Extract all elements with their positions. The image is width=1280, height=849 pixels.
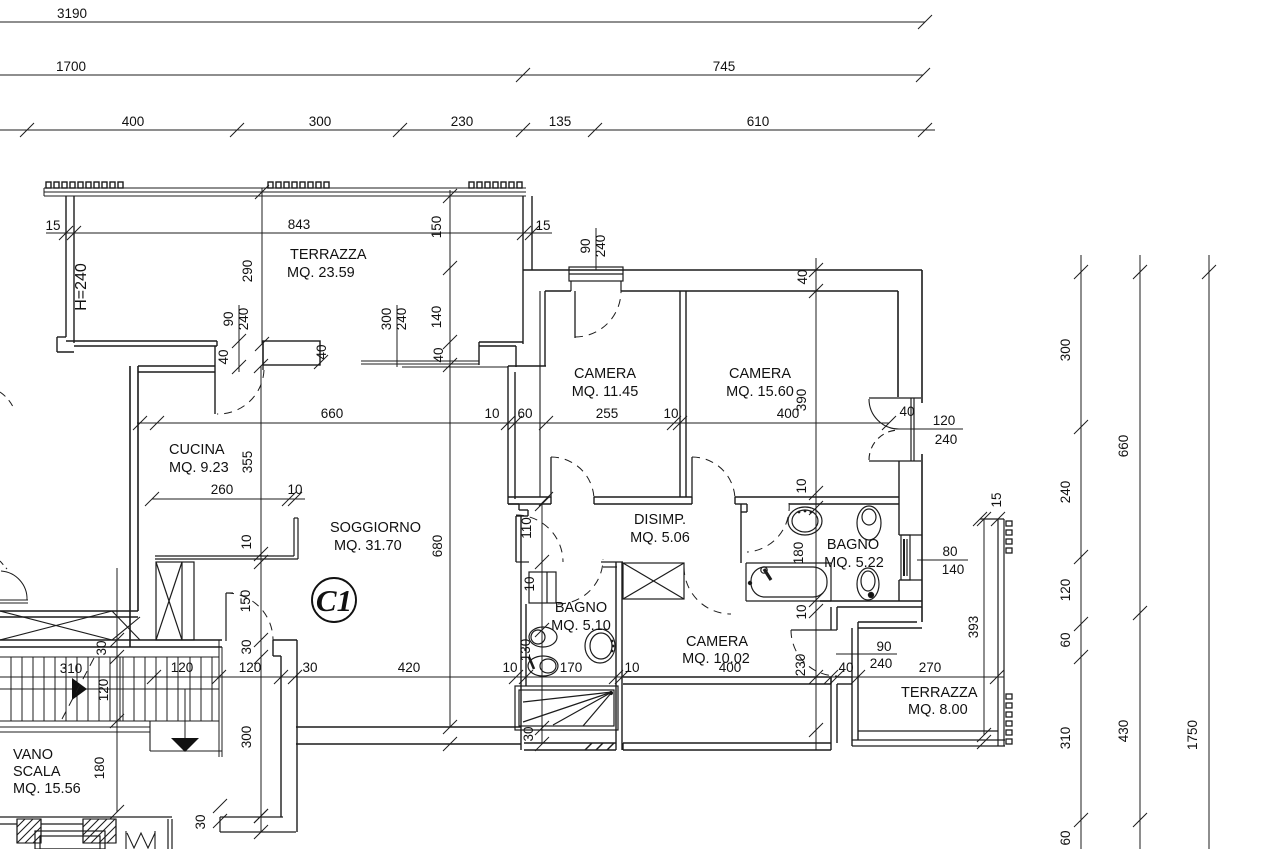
- kitchen top wall: [138, 366, 215, 372]
- stairs down arrow: [171, 689, 199, 752]
- disimp left wall and notch: [508, 504, 528, 562]
- svg-text:10: 10: [287, 482, 302, 497]
- soggiorno/camera corner wall: [508, 366, 546, 504]
- bagno 5.10 sink: [585, 629, 615, 663]
- dim vertical x=984 (393 terrazza): [977, 512, 991, 749]
- door soggiorno to disimp: arc (dashed): [516, 515, 563, 562]
- svg-text:40: 40: [795, 269, 810, 284]
- elevator door box with zigzag: [126, 831, 155, 849]
- svg-text:120: 120: [96, 679, 111, 702]
- bagno 5.10 toilet: [528, 656, 558, 676]
- svg-text:TERRAZZA: TERRAZZA: [290, 247, 367, 263]
- svg-text:130: 130: [518, 639, 533, 662]
- svg-text:300: 300: [379, 308, 394, 331]
- apartment tag C1: [312, 578, 356, 622]
- leader window 300/240: [314, 305, 397, 369]
- svg-text:3190: 3190: [57, 6, 87, 21]
- left apartment door arc fragment (dashed): [0, 392, 14, 409]
- kitchen right counter/partition: [155, 518, 298, 559]
- entry hatched wall 2: [83, 819, 116, 843]
- svg-text:240: 240: [1058, 481, 1073, 504]
- svg-text:393: 393: [966, 616, 981, 639]
- stair block top wall: [0, 640, 222, 647]
- svg-text:1750: 1750: [1185, 720, 1200, 750]
- corridor wall right of stairs: [273, 640, 297, 832]
- svg-text:10: 10: [624, 660, 639, 675]
- soggiorno lower-left wall: [0, 611, 138, 617]
- bedroom block top wall outer: [523, 269, 922, 271]
- door arc camera 11.45 (dashed): [575, 291, 621, 337]
- camera 10.02 bottom exterior wall: [623, 677, 831, 684]
- dim vertical x=117 (30/120/180 stairs): [110, 568, 124, 819]
- right exterior wall of camera 15.60: [898, 270, 922, 622]
- svg-text:MQ. 8.00: MQ. 8.00: [908, 702, 968, 718]
- terrace right wall: [523, 196, 532, 344]
- svg-text:BAGNO: BAGNO: [555, 600, 607, 616]
- fraction line 120/240 (right door): [926, 428, 963, 430]
- svg-text:40: 40: [899, 404, 914, 419]
- dimension line 3190 (top): [0, 15, 932, 29]
- soggiorno bottom wall: [296, 727, 521, 744]
- svg-text:170: 170: [560, 660, 583, 675]
- svg-text:40: 40: [838, 660, 853, 675]
- door leaf camera 11.45: [574, 291, 576, 338]
- svg-text:60: 60: [1058, 830, 1073, 845]
- fraction line 80/140 (bagno window): [917, 559, 968, 561]
- svg-text:DISIMP.: DISIMP.: [634, 512, 686, 528]
- dimension chain 660/10/60/255/10/400 (y=423): [133, 416, 896, 430]
- stairs flight 1 treads: [0, 657, 219, 721]
- svg-text:680: 680: [430, 535, 445, 558]
- svg-text:H=240: H=240: [73, 263, 90, 311]
- svg-text:10: 10: [502, 660, 517, 675]
- svg-text:10: 10: [663, 406, 678, 421]
- camera 10.02 right wall / door pier: [831, 607, 852, 743]
- svg-text:180: 180: [92, 757, 107, 780]
- left neighbour door arc: [1, 571, 27, 600]
- kitchen shaft with X pattern: [156, 562, 194, 640]
- svg-text:MQ. 5.22: MQ. 5.22: [824, 555, 884, 571]
- svg-text:MQ. 31.70: MQ. 31.70: [334, 538, 402, 554]
- dim vertical x=261 (355/150/30/300/30): [254, 359, 268, 839]
- svg-text:400: 400: [122, 114, 145, 129]
- svg-text:MQ. 5.06: MQ. 5.06: [630, 530, 690, 546]
- svg-text:300: 300: [309, 114, 332, 129]
- entry walls frame: [0, 817, 172, 849]
- lower parallel wall strip (below camera 10.02): [524, 743, 831, 750]
- dim vertical 290 (terrace): [255, 185, 269, 351]
- svg-text:90: 90: [221, 311, 236, 326]
- entry hatched wall 1: [17, 819, 41, 843]
- bagno 5.10 left wall: [521, 516, 526, 750]
- door camera 11.45 to disimp: leaf: [550, 457, 552, 497]
- svg-text:30: 30: [94, 640, 109, 655]
- wall pier below right door: [898, 461, 900, 601]
- terrace railing (top, triple line): [44, 188, 526, 196]
- door camera 10.02 to terrazza: arc (dashed): [791, 630, 837, 676]
- bottom-left corridor walls: [220, 817, 296, 832]
- svg-text:290: 290: [240, 260, 255, 283]
- svg-text:310: 310: [1058, 727, 1073, 750]
- railing posts group 2: [268, 182, 329, 188]
- bagno 5.10 door arc (dashed): [558, 559, 603, 604]
- svg-text:MQ. 23.59: MQ. 23.59: [287, 265, 355, 281]
- tick at closet wall on bedroom bottom wall: [539, 492, 553, 506]
- svg-text:260: 260: [211, 482, 234, 497]
- double door 120/240 right wall: arcs: [869, 399, 899, 460]
- svg-text:230: 230: [451, 114, 474, 129]
- svg-text:MQ. 5.10: MQ. 5.10: [551, 618, 611, 634]
- svg-text:80: 80: [942, 544, 957, 559]
- dim vertical 150/140/40/680: [443, 189, 457, 751]
- door disimp to bagno 5.22: arc (dashed): [747, 503, 789, 552]
- svg-text:CUCINA: CUCINA: [169, 442, 225, 458]
- svg-text:40: 40: [431, 347, 446, 362]
- railing posts right (upper group): [1006, 521, 1012, 553]
- divider wall between bedrooms: [680, 291, 686, 497]
- svg-text:310: 310: [60, 661, 83, 676]
- svg-text:400: 400: [719, 660, 742, 675]
- bagno 5.22 bidet: [857, 568, 879, 600]
- svg-text:SOGGIORNO: SOGGIORNO: [330, 520, 421, 536]
- svg-text:15: 15: [45, 218, 60, 233]
- svg-text:240: 240: [870, 656, 893, 671]
- svg-text:15: 15: [989, 492, 1004, 507]
- shaft with X (between disimp and camera 10.02): [623, 563, 684, 599]
- svg-text:255: 255: [596, 406, 619, 421]
- svg-text:90: 90: [578, 238, 593, 253]
- bagno 5.22 sink (top): [788, 507, 822, 535]
- svg-text:300: 300: [239, 726, 254, 749]
- stairs flight 2 treads: [120, 640, 222, 757]
- svg-text:VANO: VANO: [13, 747, 53, 763]
- bedroom bottom wall (double, with door openings): [508, 497, 899, 504]
- svg-text:240: 240: [593, 235, 608, 258]
- dimension chain 120/120/30/420/10/170/10/400/40/270 (y=677): [0, 670, 1004, 684]
- stair landing lines: [0, 721, 222, 751]
- svg-text:MQ. 15.56: MQ. 15.56: [13, 781, 81, 797]
- shower (doccia) with fan lines: [515, 686, 618, 730]
- svg-text:1700: 1700: [56, 59, 86, 74]
- svg-text:CAMERA: CAMERA: [729, 366, 791, 382]
- dim vertical x=542 (110/130/30 bagno 5.10): [535, 497, 549, 751]
- svg-text:660: 660: [1116, 435, 1131, 458]
- fraction line 90/240 (terrazza door): [836, 653, 897, 655]
- door disimp to camera 10.02: arc (dashed): [684, 567, 731, 614]
- svg-text:MQ. 11.45: MQ. 11.45: [572, 384, 639, 400]
- stairs direction arrow (flight 1): [72, 678, 87, 700]
- bagno 5.10 top wall segment: [516, 562, 623, 567]
- elevator box: [35, 831, 105, 849]
- svg-text:390: 390: [794, 389, 809, 412]
- right dim line 1 (300/240/120/60/310/60): [1074, 255, 1088, 849]
- svg-text:10: 10: [484, 406, 499, 421]
- svg-text:BAGNO: BAGNO: [827, 537, 879, 553]
- terrazza 8.00 bottom wall/rail: [852, 731, 1005, 746]
- svg-text:240: 240: [935, 432, 958, 447]
- terrazza 8.00 top wall: [858, 622, 922, 628]
- railing posts group 3: [469, 182, 522, 188]
- rail top tick (15): [973, 512, 1005, 526]
- window 300/240 glass lines: [361, 361, 508, 367]
- svg-text:90: 90: [876, 639, 891, 654]
- railing posts group 1: [46, 182, 123, 188]
- left neighbour landing lines: [0, 600, 28, 603]
- terrazza 8.00 left wall: [852, 628, 858, 746]
- svg-text:30: 30: [302, 660, 317, 675]
- svg-text:745: 745: [713, 59, 736, 74]
- svg-text:230: 230: [793, 654, 808, 677]
- svg-text:10: 10: [522, 576, 537, 591]
- svg-text:300: 300: [1058, 339, 1073, 362]
- door camera 15.60 to disimp: leaf: [691, 457, 693, 497]
- kitchen door leaf: [262, 342, 264, 370]
- svg-text:30: 30: [193, 814, 208, 829]
- terrazza 8.00 right railing: [980, 519, 1004, 746]
- svg-text:140: 140: [942, 562, 965, 577]
- bagno 5.22 window 80/140: [899, 535, 922, 580]
- svg-text:180: 180: [791, 542, 806, 565]
- terrace bottom wall (left of kitchen door): [66, 341, 217, 346]
- apartment left exterior wall: [130, 366, 138, 647]
- svg-text:430: 430: [1116, 720, 1131, 743]
- bedroom block top wall inner: [545, 291, 898, 366]
- right dim line 3 (1750): [1202, 255, 1216, 849]
- svg-text:10: 10: [794, 604, 809, 619]
- svg-text:110: 110: [519, 517, 534, 539]
- svg-text:660: 660: [321, 406, 344, 421]
- svg-text:60: 60: [1058, 632, 1073, 647]
- svg-text:10: 10: [794, 478, 809, 493]
- X brace left (structure): [0, 611, 140, 640]
- leader camera door 90/240 (rotated fraction): [595, 228, 597, 270]
- svg-text:240: 240: [394, 308, 409, 331]
- bagno 5.22 toilet: [857, 506, 881, 540]
- svg-text:120: 120: [239, 660, 262, 675]
- dimension line 400/300/230/135/610: [0, 123, 935, 137]
- entry door leaf: [225, 593, 227, 641]
- svg-text:135: 135: [549, 114, 572, 129]
- svg-text:CAMERA: CAMERA: [686, 634, 748, 650]
- stairs cut line (dashed diagonal): [62, 658, 94, 719]
- svg-text:40: 40: [216, 349, 231, 364]
- svg-text:40: 40: [314, 344, 329, 359]
- dimension line 15/843/15 (terrace top): [46, 226, 552, 240]
- door 90/240 camera 11.45 top: recess box: [569, 267, 623, 291]
- terrace left wall: [57, 196, 74, 352]
- svg-text:SCALA: SCALA: [13, 764, 61, 780]
- kitchen door jamb wall: [214, 346, 216, 414]
- kitchen door arc (dashed): [217, 370, 264, 414]
- svg-text:C1: C1: [316, 583, 352, 618]
- svg-text:270: 270: [919, 660, 942, 675]
- entry door arc at soggiorno bottom-left (dashed): [226, 593, 273, 641]
- right dim line 2 (660/430): [1133, 255, 1147, 849]
- bagno 5.22 bathtub: [746, 563, 831, 601]
- svg-text:610: 610: [747, 114, 770, 129]
- door recess bars 120/240 (right wall): [869, 398, 921, 461]
- svg-text:355: 355: [240, 451, 255, 474]
- leader kitchen door 90/240: [238, 305, 240, 372]
- bagno 5.10 door leaf box: [529, 572, 556, 603]
- door camera 10.02 to terrazza: leaf: [791, 629, 837, 631]
- svg-text:15: 15: [535, 218, 550, 233]
- door camera 15.60 to disimp: arc (dashed): [692, 457, 735, 500]
- svg-text:150: 150: [238, 590, 253, 613]
- bagno 5.10 right wall: [616, 562, 622, 750]
- svg-text:150: 150: [429, 216, 444, 239]
- svg-text:30: 30: [239, 639, 254, 654]
- door camera 11.45 to disimp: arc (dashed): [551, 457, 594, 500]
- wall pier between kitchen door and window: [263, 341, 320, 365]
- tick 30 near bottom corridor: [213, 799, 268, 828]
- bagno 5.22 bottom wall: [741, 504, 922, 607]
- svg-text:420: 420: [398, 660, 421, 675]
- bagno 5.10 bidet: [529, 627, 557, 647]
- svg-text:TERRAZZA: TERRAZZA: [901, 685, 978, 701]
- svg-text:120: 120: [171, 660, 194, 675]
- dimension line 1700 / 745: [0, 68, 930, 82]
- svg-text:140: 140: [429, 306, 444, 329]
- dimension 260/10 (cucina, y=499): [145, 492, 305, 506]
- svg-text:MQ. 9.23: MQ. 9.23: [169, 460, 229, 476]
- svg-text:120: 120: [1058, 579, 1073, 602]
- svg-text:30: 30: [521, 726, 536, 741]
- camera1 closet partition: [539, 291, 541, 497]
- svg-text:CAMERA: CAMERA: [574, 366, 636, 382]
- wall pier right of window: [479, 342, 523, 367]
- svg-text:60: 60: [517, 406, 532, 421]
- dim vertical x=816 (40/390/10/180/10/230): [809, 258, 823, 750]
- svg-text:240: 240: [236, 308, 251, 331]
- svg-text:MQ. 15.60: MQ. 15.60: [726, 384, 794, 400]
- svg-text:120: 120: [933, 413, 956, 428]
- svg-text:10: 10: [239, 534, 254, 549]
- svg-text:843: 843: [288, 217, 311, 232]
- railing posts right (lower group): [1006, 694, 1012, 744]
